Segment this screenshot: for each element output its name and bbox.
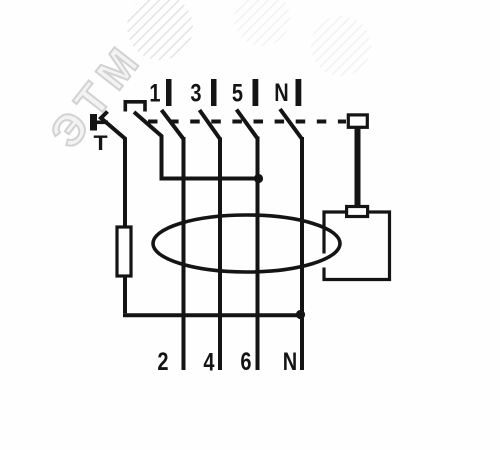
svg-text:2: 2 — [157, 348, 168, 376]
svg-text:6: 6 — [240, 348, 251, 376]
svg-text:N: N — [274, 79, 288, 107]
svg-text:N: N — [283, 348, 297, 376]
svg-text:1: 1 — [149, 79, 160, 107]
svg-text:5: 5 — [232, 79, 243, 107]
svg-text:4: 4 — [203, 348, 214, 376]
svg-text:3: 3 — [190, 79, 201, 107]
svg-text:T: T — [93, 131, 108, 155]
